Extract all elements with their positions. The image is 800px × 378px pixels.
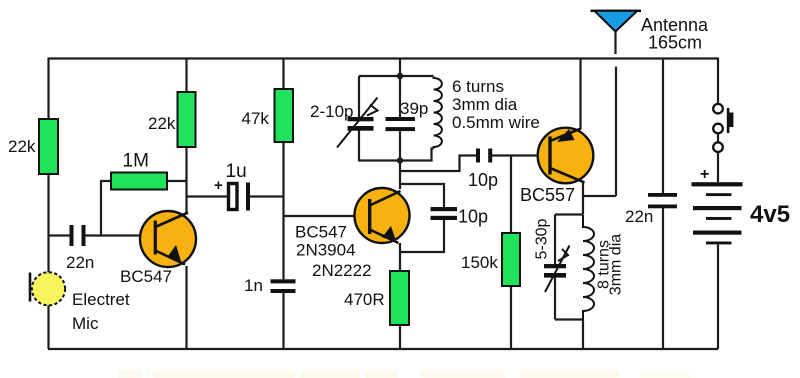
svg-text:2N2222: 2N2222 [312,261,372,280]
wire top supply rail [48,57,718,59]
switch S1 [713,104,733,152]
capacitor 22n decoupling [648,193,677,208]
svg-text:2N3904: 2N3904 [296,241,356,260]
wire tank left branch upper [358,76,360,117]
wire BC557 collector column [582,182,584,215]
wire 47k bottom to 1n column [282,142,284,279]
wire coupling cap right to BC557 base [492,154,549,156]
wire battery bottom lead [717,245,719,350]
antenna [591,11,642,32]
wire output tank bottom [555,318,583,320]
trimmer capacitor 5-30p [544,246,570,293]
svg-text:2-10p: 2-10p [310,102,353,121]
svg-text:1M: 1M [123,151,149,172]
wire 150k bottom lead [510,286,512,349]
wire BC557 emitter to rail [579,58,581,130]
wire 150k top lead [510,156,512,234]
inductor L2 8 turns [583,215,594,320]
wire feedback cap top tap [400,184,444,207]
transistor Q2 BC547 oscillator [355,188,410,243]
svg-text:3mm dia: 3mm dia [452,95,518,114]
wire 22n2 bottom lead [662,208,664,349]
wire switch middle link [717,134,719,143]
wire 1n bottom lead [282,293,284,349]
svg-text:1n: 1n [244,276,263,295]
wire 1u cap left lead [187,195,228,197]
wire 22n2 top lead [662,58,664,194]
label 6 turns 3mm dia 0.5mm wire [452,77,540,132]
wire output tank top [555,213,583,215]
svg-text:BC547: BC547 [120,267,172,286]
wire switch to battery [717,152,719,182]
svg-text:+: + [700,166,709,183]
wire collector to antenna stub [583,195,616,197]
wire left column mid [47,174,49,273]
svg-text:BC557: BC557 [520,185,575,205]
node tank bottom junction [397,157,403,163]
wire antenna upper segment [614,30,616,54]
wire output tank to 0V [582,320,584,350]
wire tank top column [399,58,401,118]
battery 4v5 [692,166,743,244]
wire output tank left lower [554,278,556,320]
node tank top junction [397,73,403,79]
wire switch top lead [717,58,719,105]
wire feedback cap bottom tap [400,220,444,252]
wire 22k2 top lead [185,58,187,93]
capacitor 39p [386,117,416,131]
svg-text:10p: 10p [458,207,488,227]
capacitor 22n (mic coupling) [70,225,86,246]
electret microphone [30,272,65,305]
transistor Q1 BC547 [140,211,196,267]
trimmer capacitor 2-10p [337,98,378,148]
wire 1u cap right lead [250,195,284,197]
label 8 turns 3mm dia rotated [596,234,625,295]
resistor 22k (mic bias) [39,119,58,174]
capacitor 10p coupling [476,149,492,163]
wire left column top [47,58,49,120]
wire 22n cap right lead to base node [86,234,157,236]
svg-text:22k: 22k [8,137,36,156]
svg-text:22n: 22n [66,253,94,272]
svg-text:1u: 1u [226,161,247,182]
wire tank left branch lower [358,131,360,162]
wire left column below mic [47,305,49,349]
label Electret Mic [72,290,130,333]
inductor L1 6 turns [434,77,442,149]
label BC547 2N3904 2N2222 [295,223,372,281]
svg-text:Electret: Electret [72,290,130,309]
label Antenna 165cm [641,15,709,53]
wire 1M right lead [167,180,187,182]
svg-text:150k: 150k [461,253,498,272]
resistor 1M [111,173,167,190]
svg-text:22n: 22n [625,207,653,226]
wire Q2 base [284,215,370,217]
capacitor 10p feedback [431,207,458,220]
svg-text:+: + [214,177,223,194]
svg-text:4v5: 4v5 [750,201,790,228]
faint cropped caption strip [118,369,690,378]
wire coupling cap left tap [400,156,476,172]
svg-text:165cm: 165cm [648,33,702,53]
wire output tank left upper [554,215,556,265]
wire tank lower column to Q2 collector [399,131,401,190]
capacitor 1n [271,279,296,293]
svg-text:39p: 39p [400,99,428,118]
svg-text:Mic: Mic [72,314,99,333]
svg-text:47k: 47k [242,109,270,128]
svg-text:5-30p: 5-30p [534,218,551,259]
wire 470R bottom lead [399,325,401,349]
wire Q2 emitter lead [399,243,401,271]
resistor 150k [502,233,520,286]
wire Q1 emitter column [185,266,187,349]
svg-text:10p: 10p [468,170,498,190]
svg-text:BC547: BC547 [295,223,347,242]
svg-text:6 turns: 6 turns [452,77,504,96]
wire Q1 collector column [185,147,187,212]
wire tank top horizontal [359,75,434,77]
resistor 22k (Q1 collector) [178,92,196,147]
wire 22n cap left lead [49,234,70,236]
wire 47k top lead [282,58,284,90]
resistor 47k [275,89,294,142]
resistor 470R [390,271,409,325]
svg-text:0.5mm wire: 0.5mm wire [452,113,540,132]
svg-text:470R: 470R [344,290,385,309]
svg-text:3mm dia: 3mm dia [608,234,625,295]
wire antenna lower segment [615,67,617,197]
wire tank bottom horizontal with step to coil [359,149,434,161]
transistor Q3 BC557 [538,128,594,184]
svg-text:22k: 22k [148,114,176,133]
wire base node up to 1M [101,181,111,236]
capacitor 1u electrolytic [214,177,250,211]
wire bottom 0V rail [48,348,718,350]
